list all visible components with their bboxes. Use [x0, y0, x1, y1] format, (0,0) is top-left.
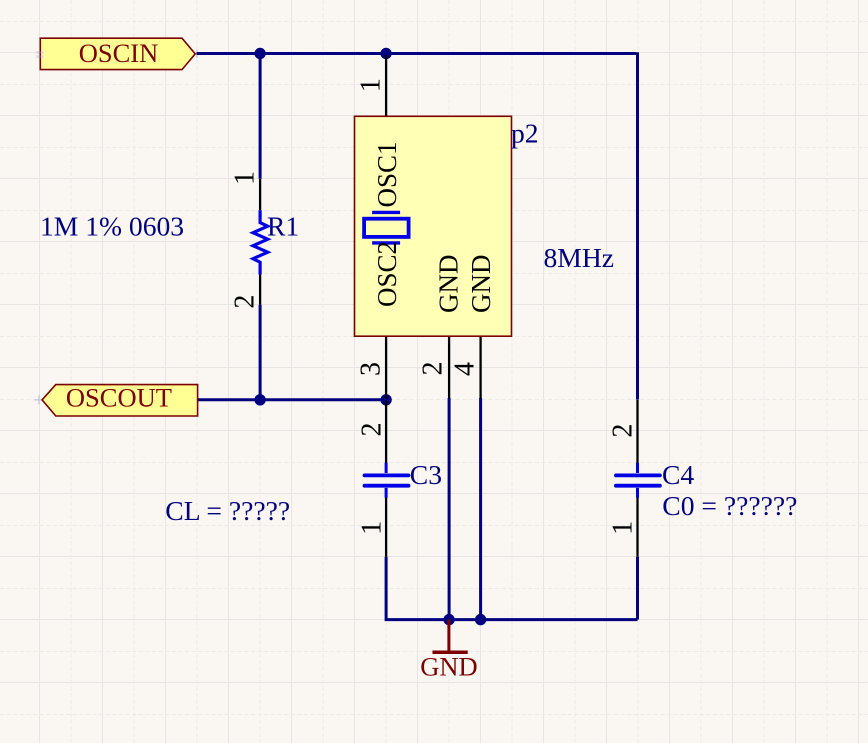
svg-text:GND: GND — [420, 651, 477, 681]
svg-text:2: 2 — [418, 362, 449, 376]
svg-text:1: 1 — [355, 78, 386, 92]
svg-text:3: 3 — [355, 362, 386, 376]
svg-text:CL = ?????: CL = ????? — [165, 495, 290, 526]
svg-text:2: 2 — [357, 423, 388, 437]
svg-text:4: 4 — [449, 362, 480, 376]
svg-text:1: 1 — [229, 171, 260, 185]
svg-text:C3: C3 — [410, 459, 442, 490]
svg-text:2: 2 — [229, 295, 260, 309]
svg-text:C0 = ??????: C0 = ?????? — [662, 490, 797, 521]
svg-text:GND: GND — [434, 255, 464, 314]
svg-text:C4: C4 — [662, 459, 694, 490]
svg-text:R1: R1 — [267, 210, 299, 241]
svg-text:1M 1% 0603: 1M 1% 0603 — [40, 210, 184, 241]
svg-text:1: 1 — [357, 521, 388, 535]
svg-text:1: 1 — [607, 521, 638, 535]
svg-text:p2: p2 — [511, 118, 539, 149]
svg-text:OSCIN: OSCIN — [79, 38, 159, 68]
svg-text:8MHz: 8MHz — [544, 242, 615, 273]
svg-text:OSC1: OSC1 — [372, 141, 402, 207]
svg-text:GND: GND — [466, 255, 496, 314]
svg-text:OSCOUT: OSCOUT — [66, 383, 172, 413]
svg-text:2: 2 — [607, 424, 638, 438]
svg-text:OSC2: OSC2 — [372, 241, 402, 307]
